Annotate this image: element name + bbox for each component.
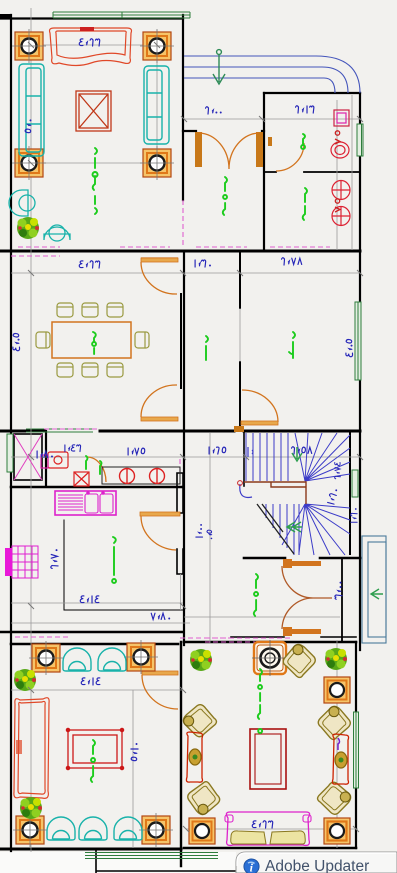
wall wc block top bbox=[264, 92, 360, 94]
dining chair 5 bbox=[82, 363, 98, 377]
dim 2.00 porch bbox=[206, 107, 222, 114]
entrance arrow green bbox=[213, 50, 225, 84]
sofa left teal bbox=[19, 64, 44, 156]
wall kitchen-hall x184 bbox=[183, 251, 185, 645]
chair teal bottom 2 bbox=[79, 817, 107, 840]
sofa right teal bbox=[144, 66, 169, 144]
corner table MR bbox=[140, 146, 174, 180]
window laundry top bbox=[26, 429, 93, 432]
door kitchen bbox=[141, 516, 176, 550]
stairs start circle red bbox=[238, 481, 243, 486]
armchair low-left bbox=[185, 779, 223, 817]
dim 2.13 wc bbox=[296, 106, 314, 113]
bottom white band bbox=[0, 852, 236, 873]
dim 1.80 shaft bbox=[37, 451, 53, 458]
door double entry: jambs bbox=[195, 132, 263, 167]
sink wc small bbox=[334, 110, 349, 126]
plant right salon TL bbox=[190, 649, 212, 671]
toilet lower 2 bbox=[332, 207, 350, 226]
chair teal round 1 bbox=[9, 190, 35, 216]
door double entry arcs bbox=[199, 133, 259, 169]
stairs tiny marks bbox=[248, 447, 253, 457]
dim 5.10 left salon vert bbox=[131, 743, 138, 761]
door bedroom bbox=[242, 390, 278, 422]
dim 5.0 salon left bbox=[25, 119, 31, 132]
wall hall right inner bbox=[341, 558, 343, 642]
washing machine x bbox=[74, 472, 89, 486]
chair teal top 1 bbox=[63, 648, 91, 671]
dim 1.30 corridor bbox=[195, 260, 211, 267]
label salon rijal bbox=[93, 148, 98, 214]
wall salons top bbox=[11, 642, 356, 644]
dim 75 wc lower bbox=[335, 207, 340, 212]
armchair mid-right bbox=[315, 704, 353, 742]
stairs cut line bbox=[257, 504, 294, 554]
corner table BR-BL bbox=[189, 818, 215, 844]
wall wc divider bbox=[264, 171, 360, 173]
wall laundry divider bbox=[45, 431, 47, 486]
label taam bbox=[92, 332, 96, 354]
stairs lower fan bbox=[282, 504, 350, 555]
door wc bbox=[276, 143, 304, 171]
burner 2 bbox=[150, 468, 165, 484]
stairs landing rail maroon bbox=[244, 482, 306, 504]
wall main y250 bbox=[0, 250, 360, 253]
sofa red left bbox=[14, 698, 49, 799]
dining chair 2 bbox=[82, 303, 98, 317]
door dining top right bbox=[141, 258, 178, 294]
door left salon bbox=[142, 675, 178, 709]
chair teal bottom 3 bbox=[114, 817, 142, 840]
window wc right bbox=[357, 124, 363, 156]
dim 2.58 stairs bbox=[292, 447, 312, 454]
label left salon bbox=[91, 740, 95, 782]
window stairs right bbox=[352, 470, 358, 497]
armchair top bbox=[281, 642, 319, 680]
dim 4.23 right salon bbox=[252, 821, 273, 828]
dim 1.65 stairs bbox=[209, 447, 226, 454]
dim 1.75 burners bbox=[128, 448, 145, 455]
entrance canopy arcs blue bbox=[184, 56, 360, 93]
wall stairs right inner bbox=[349, 431, 351, 554]
wall stairs bottom bbox=[244, 557, 360, 560]
window salon top bbox=[53, 12, 190, 18]
magenta dashed openings bbox=[11, 200, 330, 642]
toilet lower 1 bbox=[332, 181, 350, 200]
svg-text:Adobe Updater: Adobe Updater bbox=[265, 858, 369, 873]
kitchen window grid magenta bbox=[5, 546, 38, 578]
wall corridor left bbox=[180, 294, 182, 388]
window laundry left bbox=[7, 434, 13, 472]
window bedroom right bbox=[355, 302, 361, 380]
door hall double arcs bbox=[282, 566, 332, 629]
dim 2.74 stairs vert bbox=[335, 463, 341, 479]
plant salon bbox=[17, 217, 39, 239]
dim 4.23 dining bbox=[79, 261, 100, 268]
dim 2.78 bedroom bbox=[282, 258, 302, 265]
wall corridor right bbox=[239, 252, 241, 431]
armchair mid-left bbox=[181, 702, 219, 740]
burner 1 bbox=[120, 468, 135, 484]
burner counter bbox=[102, 467, 180, 484]
wall laundry bottom bbox=[11, 486, 183, 489]
dim 1.43 washer bbox=[65, 445, 81, 452]
plant left salon top bbox=[14, 669, 36, 691]
dim 4.14 left salon bbox=[81, 678, 100, 685]
wall kitchen bottom bbox=[0, 631, 183, 634]
label laundry small bbox=[86, 456, 102, 474]
stairs upper treads bbox=[246, 433, 288, 481]
stairs upper fan bbox=[295, 433, 350, 481]
dim 4.05 bedroom right bbox=[346, 339, 353, 356]
corner table BR-BR bbox=[324, 818, 350, 844]
wall kitchen inner L bbox=[64, 520, 183, 610]
label corridor bbox=[206, 336, 208, 360]
corner table TL bbox=[12, 29, 46, 63]
wall right outer upper bbox=[359, 93, 361, 650]
window below left salon bbox=[85, 853, 218, 859]
stairs lower treads bbox=[266, 504, 299, 555]
wall salons divider bbox=[180, 642, 182, 866]
dim 0.90 hall vert bbox=[196, 524, 203, 537]
sink counter bbox=[55, 491, 116, 515]
washer unit bbox=[41, 452, 68, 468]
sofa red right-salon left bbox=[186, 732, 202, 782]
dining chair 3 bbox=[107, 303, 123, 317]
dim 4.05 dining left bbox=[13, 333, 20, 350]
dim 1.20 stairs vert bbox=[327, 488, 337, 504]
corner table BL-BL bbox=[13, 813, 47, 847]
stairs handrail arc bbox=[240, 484, 252, 497]
stairs blue bbox=[240, 433, 350, 555]
center table left salon bbox=[66, 728, 123, 769]
label sala madkhal bbox=[223, 177, 227, 215]
label kitchen bbox=[112, 537, 116, 583]
dim 3.00 hall vert bbox=[335, 582, 342, 600]
stairs green arrows bbox=[287, 447, 302, 532]
center table salon bbox=[76, 91, 111, 131]
corner table BL-BR bbox=[139, 813, 173, 847]
red 75 dims bbox=[335, 131, 340, 212]
wall porch door head bbox=[183, 130, 264, 132]
dim ticks bbox=[28, 42, 363, 832]
wall stairs left stringer bbox=[243, 433, 245, 486]
wall kitchen right stub bbox=[177, 473, 183, 574]
wall salon right / entry hall left bbox=[182, 15, 184, 200]
dim 4.23 salon bbox=[79, 39, 100, 46]
dining chair 1 bbox=[57, 303, 73, 317]
sofa red right-salon right bbox=[332, 734, 348, 784]
shaft X bbox=[14, 434, 42, 480]
dim 4.14 kitchen bbox=[80, 596, 99, 603]
wall top salon bbox=[0, 17, 183, 19]
dim 2.70 kitchen vert bbox=[51, 549, 58, 568]
door jamb bedroom wall notch bbox=[234, 426, 244, 432]
door hall double lower: jambs bbox=[283, 559, 321, 636]
corner table rings top bbox=[252, 640, 288, 676]
dim 2.74b right wall vert bbox=[351, 508, 357, 522]
label bedroom bbox=[289, 332, 295, 358]
plant right salon TR bbox=[325, 648, 347, 670]
wall left outer bbox=[10, 15, 12, 851]
wall right salon bottom bbox=[184, 847, 356, 850]
label dawra bbox=[301, 134, 305, 149]
dim 7.80 bbox=[151, 613, 170, 619]
corner table 2 right bbox=[324, 677, 350, 703]
door laundry small bbox=[87, 457, 106, 482]
label maghasil bbox=[303, 188, 307, 220]
wall dining bottom y430 bbox=[0, 430, 360, 433]
dining chair 8 bbox=[135, 332, 149, 348]
chair teal bottom 1 bbox=[47, 817, 75, 840]
toilet wc upper bbox=[331, 142, 349, 158]
sofa bottom magenta bbox=[225, 812, 311, 845]
purple mark bbox=[338, 738, 340, 750]
wall right salon right bbox=[355, 642, 357, 848]
chair teal round 2 bbox=[44, 225, 70, 241]
label sala maisha bbox=[254, 574, 258, 616]
sofa top red bbox=[50, 27, 132, 66]
dim 0.9b hall vert bbox=[207, 530, 212, 539]
window right salon right bbox=[354, 712, 359, 788]
dining chair 7 bbox=[36, 332, 50, 348]
wall left salon bottom bbox=[0, 848, 181, 851]
chair teal top 2 bbox=[98, 648, 126, 671]
wall shaft box laundry bbox=[14, 434, 42, 480]
corner table TR bbox=[140, 29, 174, 63]
wall wc block left bbox=[263, 93, 265, 250]
doors orange bbox=[87, 132, 332, 709]
dining table bbox=[52, 322, 131, 358]
door dining bottom right bbox=[141, 385, 177, 417]
dim 75 wc upper bbox=[335, 139, 340, 144]
label salon nisa bbox=[258, 669, 262, 733]
plant left salon bottom bbox=[20, 797, 42, 819]
corner table BL-TR bbox=[124, 640, 158, 674]
dining chair 6 bbox=[107, 363, 123, 377]
porch arrow green bbox=[371, 589, 383, 599]
dining chair 4 bbox=[57, 363, 73, 377]
corner table BL-TL bbox=[29, 641, 63, 675]
corner table ML bbox=[12, 146, 46, 180]
wall stub below left salon bbox=[96, 849, 236, 873]
armchair low-right bbox=[315, 780, 353, 818]
center table right salon bbox=[250, 729, 286, 789]
